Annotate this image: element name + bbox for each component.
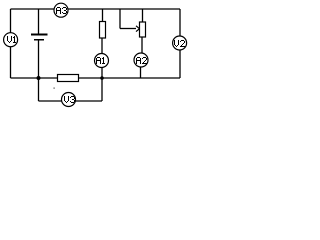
stray dot artifact bbox=[54, 88, 55, 89]
resistor R1 (vertical box) bbox=[100, 22, 106, 39]
wire battery node down to bottom loop bbox=[38, 78, 40, 101]
ammeter A1 bbox=[95, 54, 109, 68]
wire branch1 top lead bbox=[102, 9, 104, 22]
ammeter A3 bbox=[54, 3, 68, 17]
resistor R3 (horizontal box on middle wire) bbox=[58, 75, 79, 82]
wire A2 to middle wire bbox=[140, 67, 142, 78]
voltmeter V3 bbox=[62, 93, 76, 107]
wire A1 node down to bottom loop bbox=[101, 78, 103, 101]
junction dot A1 node bbox=[100, 76, 104, 80]
wire rheostat slider horizontal bbox=[120, 28, 136, 30]
wire bottom horizontal (through V3) bbox=[39, 100, 103, 102]
wire middle horizontal bbox=[11, 77, 181, 79]
junction dot battery node bbox=[37, 76, 41, 80]
battery B1 short plate bbox=[34, 39, 44, 41]
ammeter A2 bbox=[134, 53, 148, 67]
voltmeter V2 bbox=[173, 36, 187, 50]
wire R1 to A1 to middle wire bbox=[101, 38, 103, 78]
wire left vertical (through V1) bbox=[10, 9, 12, 78]
wire right vertical (through V2) bbox=[179, 9, 181, 78]
wire top (left node to right node) bbox=[11, 8, 181, 10]
wire R2 to A2 bbox=[141, 37, 143, 54]
wire branch2 top lead bbox=[142, 9, 144, 22]
battery B1 long plate bbox=[31, 34, 48, 36]
wire rheostat slider vertical bbox=[119, 9, 121, 29]
rheostat R2 (vertical box) bbox=[140, 22, 146, 37]
rheostat slider arrowhead bbox=[136, 26, 140, 32]
voltmeter V1 bbox=[4, 33, 18, 47]
wire battery top lead bbox=[38, 9, 40, 34]
wire battery bottom lead bbox=[38, 41, 40, 79]
